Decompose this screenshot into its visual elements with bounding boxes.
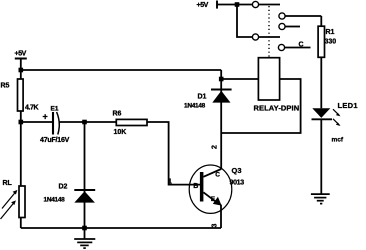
- svg-text:E: E: [211, 196, 216, 203]
- svg-text:1: 1: [168, 179, 172, 186]
- node R5 bottom junction: [19, 120, 24, 125]
- svg-text:E1: E1: [51, 106, 59, 113]
- ground bottom: [74, 228, 95, 248]
- wire E1 to R6: [59, 121, 117, 123]
- relay RL1 coil box: [258, 58, 279, 100]
- ground right: [311, 194, 330, 204]
- wire left rail: [20, 111, 22, 186]
- svg-text:330: 330: [325, 39, 337, 46]
- resistor R1 330: [318, 26, 336, 57]
- svg-text:3: 3: [212, 224, 219, 228]
- svg-text:+5V: +5V: [197, 2, 209, 9]
- diode D2 1N4148: [44, 184, 96, 204]
- LED LED1: [312, 101, 358, 144]
- svg-text:LED1: LED1: [338, 101, 358, 110]
- relay throw contact NC1: [279, 23, 300, 29]
- wire to capacitor E1: [21, 121, 53, 123]
- svg-text:RL: RL: [3, 180, 13, 187]
- svg-text:Q3: Q3: [232, 166, 242, 175]
- capacitor C E1 47uF/16V: [40, 106, 70, 145]
- resistor R6 10K: [113, 110, 148, 136]
- svg-text:+: +: [43, 112, 48, 122]
- power +5V left: [15, 51, 27, 80]
- svg-text:2: 2: [212, 145, 219, 149]
- svg-text:D1: D1: [198, 93, 207, 100]
- relay throw contact NO1: [279, 13, 321, 19]
- svg-text:R1: R1: [326, 29, 335, 36]
- wire D2 branch: [84, 122, 86, 228]
- wire emitter to ground rail: [220, 205, 222, 228]
- wire LED1 to ground: [320, 119, 322, 194]
- wire pole 2 feed: [237, 5, 252, 38]
- wire relay actuator dotted link: [268, 6, 270, 58]
- svg-text:R5: R5: [1, 83, 10, 90]
- power +5V top: [197, 1, 253, 10]
- svg-text:R6: R6: [113, 110, 122, 117]
- svg-text:9013: 9013: [230, 179, 245, 186]
- wire R6 to base: [147, 122, 201, 185]
- photoresistor RL: [1, 180, 26, 219]
- wire RL to ground rail: [20, 218, 22, 229]
- svg-text:1N4148: 1N4148: [184, 103, 206, 110]
- wire coil right lead and return: [221, 79, 300, 133]
- relay contact pole 1: [252, 1, 280, 7]
- wire top rail: [21, 69, 221, 71]
- relay throw contact C: [278, 41, 310, 50]
- wire collector / relay return vertical: [220, 70, 222, 169]
- wire R1 to LED1: [320, 57, 322, 108]
- transistor Q3 9013: [189, 165, 244, 213]
- wire ground rail: [21, 227, 221, 229]
- svg-text:RELAY-DPIN: RELAY-DPIN: [254, 103, 300, 112]
- wire coil left lead: [221, 78, 258, 80]
- diode D1 1N4148: [184, 90, 232, 110]
- svg-text:C: C: [215, 171, 220, 178]
- resistor R5: [1, 79, 39, 112]
- node D2 top junction: [82, 120, 87, 125]
- relay contact pole 2: [252, 34, 280, 40]
- svg-text:1N4148: 1N4148: [44, 196, 66, 203]
- node D1 top junction: [219, 77, 224, 82]
- node top-left junction: [19, 68, 24, 73]
- svg-text:4.7K: 4.7K: [25, 105, 39, 112]
- svg-text:B: B: [193, 183, 198, 190]
- svg-text:mcf: mcf: [332, 137, 344, 144]
- wire to R1: [320, 16, 322, 26]
- node contact feed junction: [235, 2, 240, 7]
- node ground junction: [82, 226, 87, 231]
- svg-text:47uF/16V: 47uF/16V: [40, 137, 70, 144]
- svg-text:+5V: +5V: [15, 51, 27, 58]
- svg-text:C: C: [299, 41, 304, 48]
- svg-text:10K: 10K: [114, 129, 127, 136]
- svg-text:D2: D2: [59, 184, 68, 191]
